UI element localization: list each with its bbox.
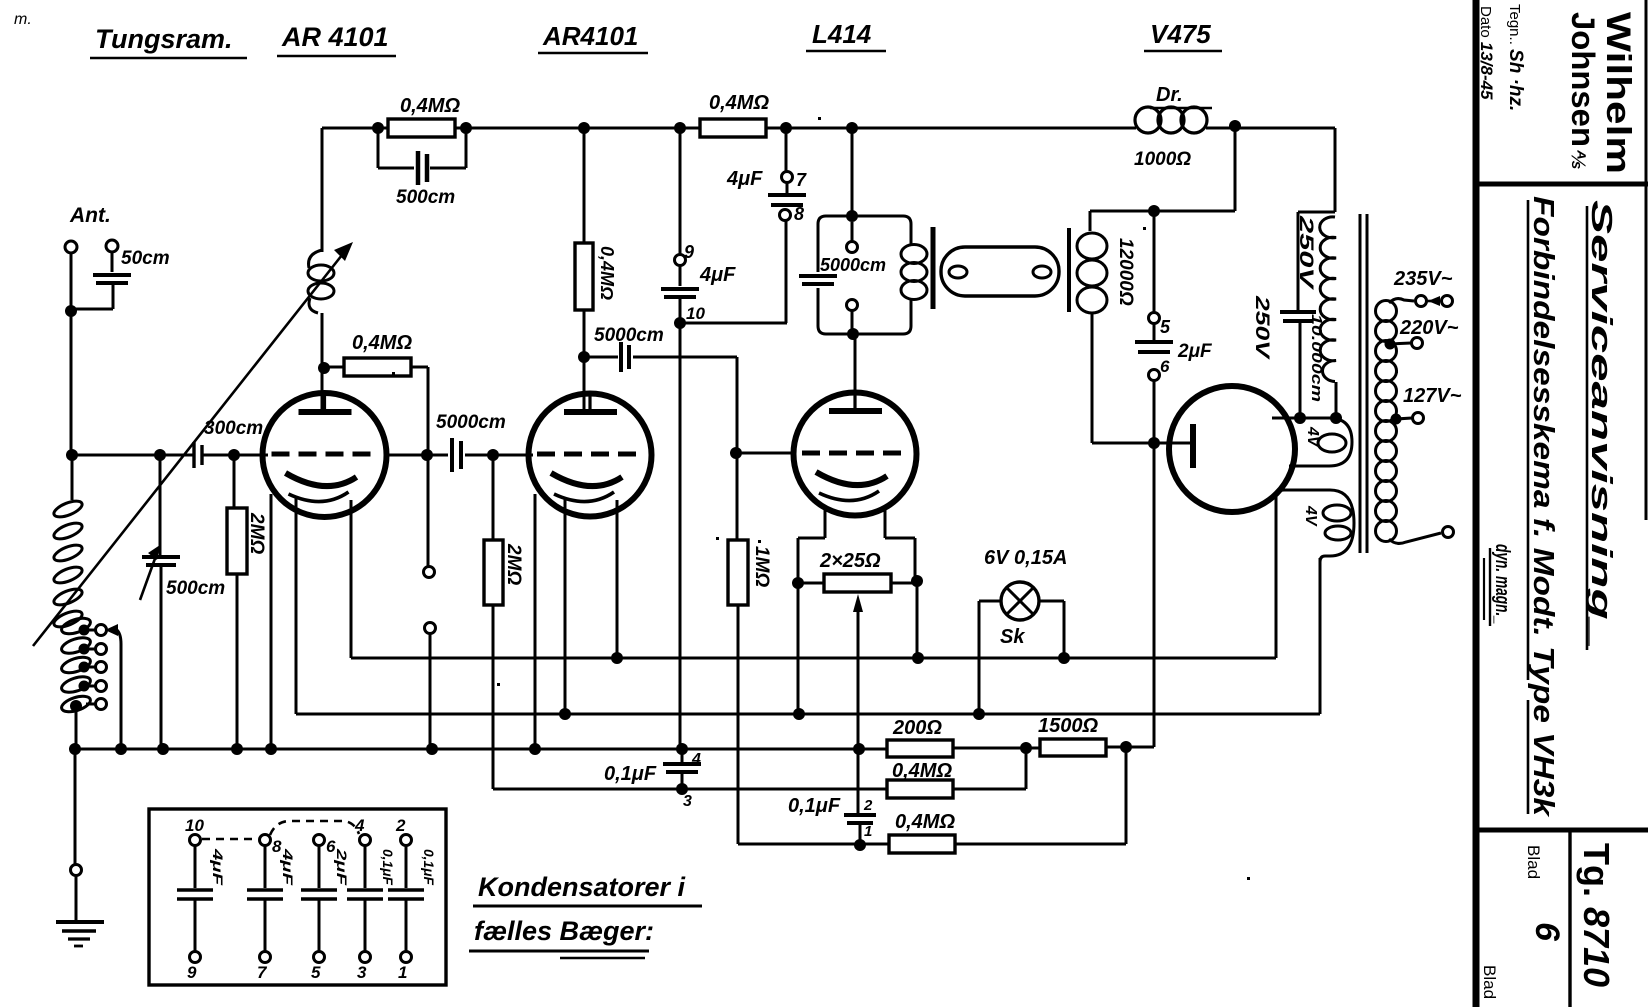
capacitor 4uF (9-10) xyxy=(679,266,682,286)
svg-text:127V~: 127V~ xyxy=(1403,385,1462,407)
svg-text:250V: 250V xyxy=(1295,214,1316,290)
node top bus junctions xyxy=(372,122,384,134)
svg-text:2: 2 xyxy=(395,816,406,835)
wire tube1 filament right leg xyxy=(350,500,353,658)
tube V3 L414 output triode xyxy=(794,393,917,516)
node heater line1 junctions xyxy=(611,652,623,664)
resistor 2x25 ohm filament hum pot xyxy=(798,582,824,585)
node after 1500 ohm xyxy=(1120,741,1132,753)
wire HT winding bottom to 4V line xyxy=(1335,382,1338,418)
wire y211 rail down to terminal 5 xyxy=(1153,211,1156,313)
wire tube3 filament left leg xyxy=(824,508,827,538)
resistor 0,4Mohm on y844 rail xyxy=(889,835,955,853)
sidebar bottom vertical divider xyxy=(1568,830,1571,1007)
svg-text:L414: L414 xyxy=(812,19,872,49)
wire tube1 cathode lead xyxy=(270,494,273,749)
wire lamp right lead to heater line1 xyxy=(1039,600,1064,603)
svg-text:Tegn.. Sh ·hz.: Tegn.. Sh ·hz. xyxy=(1505,4,1526,111)
svg-text:1: 1 xyxy=(864,823,872,840)
node 2Mohm branch xyxy=(228,449,240,461)
wire tube2 filament left leg xyxy=(564,498,567,714)
svg-text:3: 3 xyxy=(357,963,367,982)
wire antenna down xyxy=(70,253,73,311)
dashed link 10-8 xyxy=(202,838,258,841)
capacitor 2uF terminals 5-6 xyxy=(1153,324,1156,340)
resistor 0,4Mohm tube2 plate (vertical) xyxy=(575,243,593,310)
block capacitor 0,1&#956;F terminals 2-1 xyxy=(401,835,412,846)
capacitor 250V/10000cm reservoir xyxy=(1280,310,1316,314)
wire mains bottom lead xyxy=(1389,533,1441,543)
svg-text:5000cm: 5000cm xyxy=(436,412,506,433)
wire rectifier node into tube xyxy=(1154,442,1190,445)
svg-text:250V: 250V xyxy=(1251,295,1272,360)
wire tube3 plate lead xyxy=(854,334,857,412)
wire heater line2 xyxy=(296,713,1320,716)
svg-text:4V: 4V xyxy=(1304,426,1321,448)
svg-text:300cm: 300cm xyxy=(204,418,263,439)
svg-text:5000cm: 5000cm xyxy=(820,255,886,275)
wire tube2 grid leak down to y789 rail xyxy=(492,605,495,789)
node 500cm branch xyxy=(154,449,166,461)
svg-text:220V~: 220V~ xyxy=(1399,317,1459,339)
potentiometer wiper arrow xyxy=(853,594,863,612)
wire heater line1 xyxy=(351,657,1276,660)
rectifier electrode bar xyxy=(1190,424,1196,468)
tube V2 AR4101 triode xyxy=(529,394,652,517)
wire top bus corner down to transformer xyxy=(1334,128,1337,212)
svg-text:2: 2 xyxy=(863,797,873,814)
svg-text:Dr.: Dr. xyxy=(1156,84,1183,106)
svg-text:Blad: Blad xyxy=(1480,965,1499,999)
coil tap junction dots xyxy=(79,625,90,636)
wire y844 up to 1500 node xyxy=(1125,747,1128,844)
transformer 4V winding heaters xyxy=(1276,490,1354,562)
wire 2x25 left down to heater line2 xyxy=(797,583,800,714)
svg-text:12000Ω: 12000Ω xyxy=(1115,238,1136,306)
capacitor 50cm antenna xyxy=(111,252,114,272)
wire field coil top lead xyxy=(1089,211,1092,231)
terminal antenna left xyxy=(65,241,77,253)
node y211 rail to 2uF xyxy=(1148,205,1160,217)
capacitor 500cm parallel with top-left resistor xyxy=(377,128,380,168)
wire ground bus left end down xyxy=(74,749,77,864)
wire ground bus xyxy=(75,748,887,751)
svg-text:Sk: Sk xyxy=(1000,626,1025,648)
wire coupling down to tube3 grid xyxy=(736,357,739,453)
node 10 junction xyxy=(674,317,686,329)
terminal antenna right xyxy=(106,240,118,252)
svg-text:Dato 13/8-45: Dato 13/8-45 xyxy=(1477,6,1496,100)
svg-text:500cm: 500cm xyxy=(166,578,225,599)
svg-text:10: 10 xyxy=(686,304,705,323)
inductor antenna coil upper section xyxy=(71,455,74,500)
wire heater line2 up to 4V winding2 bottom xyxy=(1319,558,1322,714)
resistor 200 ohm in return bus xyxy=(887,740,953,757)
capacitor 0,1uF terminals 4-3 xyxy=(681,749,684,762)
wire 4V line xyxy=(1272,417,1336,420)
resistor 0,4Mohm top-left xyxy=(388,119,455,137)
svg-text:1500Ω: 1500Ω xyxy=(1038,715,1098,737)
wire tube3 filament right leg xyxy=(884,508,887,538)
wire lamp left lead to heater line2 xyxy=(979,600,1001,603)
wire choke node down to y211 rail xyxy=(1234,126,1237,211)
svg-text:Ant.: Ant. xyxy=(69,204,111,227)
wire mains top lead 235V xyxy=(1389,299,1414,303)
node coupling tube1-tube2 xyxy=(421,449,433,461)
tap selector arrow xyxy=(105,624,118,636)
svg-text:1000Ω: 1000Ω xyxy=(1134,149,1191,170)
ground symbol xyxy=(75,876,78,922)
wire to tube3 grid xyxy=(736,452,796,455)
wire tube1 grid to coupling node xyxy=(386,454,427,457)
choke Dr. 1000ohm on top bus xyxy=(1135,107,1161,133)
svg-text:V475: V475 xyxy=(1150,19,1211,49)
svg-text:4μF: 4μF xyxy=(726,168,763,190)
svg-text:0,4MΩ: 0,4MΩ xyxy=(709,92,769,114)
svg-text:4: 4 xyxy=(691,751,701,768)
capacitor 5000cm in output loop xyxy=(799,274,837,278)
wire left column to grid bus xyxy=(70,311,73,455)
node 2x25 right xyxy=(911,575,923,587)
output coupling loop with 5000cm capacitor and speaker primary xyxy=(818,216,852,272)
block capacitor 2&#956;F terminals 6-5 xyxy=(314,835,325,846)
wire cap bottom to 4V line xyxy=(1299,321,1302,418)
svg-text:2MΩ: 2MΩ xyxy=(246,512,267,554)
speaker transformer core xyxy=(931,227,936,309)
terminal 6 xyxy=(1149,370,1160,381)
svg-text:Johnsen: Johnsen xyxy=(1565,12,1601,147)
svg-text:6V 0,15A: 6V 0,15A xyxy=(984,547,1067,569)
svg-text:200Ω: 200Ω xyxy=(892,717,942,739)
svg-text:4μF: 4μF xyxy=(699,264,736,286)
svg-text:6: 6 xyxy=(1160,357,1170,376)
svg-text:Serviceanvisning_: Serviceanvisning_ xyxy=(1585,200,1617,648)
transformer HT winding 250V xyxy=(1320,217,1336,382)
node ground bus junctions xyxy=(69,743,81,755)
capacitor 300cm xyxy=(192,442,195,468)
terminal test point upper in loop xyxy=(851,222,854,242)
wire field coil bottom lead xyxy=(1091,314,1094,443)
wire grid bus xyxy=(72,454,193,457)
svg-text:7: 7 xyxy=(257,963,268,982)
node between 200 and 1500 xyxy=(1020,742,1032,754)
terminal 7 xyxy=(782,172,793,183)
tube V1 Tungsram AR4101 triode xyxy=(263,393,387,517)
capacitor 0,1uF terminals 2-1 xyxy=(844,813,876,817)
svg-text:0,4MΩ: 0,4MΩ xyxy=(895,811,955,833)
terminal 8 xyxy=(780,210,791,221)
paper edge right xyxy=(1645,0,1648,520)
node tube2 grid xyxy=(487,449,499,461)
jack terminals below coupling node xyxy=(427,455,430,567)
wire top bus down to output loop xyxy=(851,128,854,216)
resistor 0,4Mohm tube1 grid leak xyxy=(324,366,344,369)
wire node10 to jack8 column xyxy=(680,322,787,325)
resistor 2Mohm tube1 grid leak xyxy=(233,455,236,508)
terminal test point lower in loop xyxy=(851,311,854,330)
svg-text:2μF: 2μF xyxy=(1177,341,1213,362)
wire coil bottom to ground bus xyxy=(75,706,78,749)
resistor 1500 ohm in return bus xyxy=(1040,739,1106,756)
node rectifier input xyxy=(1148,437,1160,449)
svg-text:0,4MΩ: 0,4MΩ xyxy=(352,332,412,354)
svg-text:235V~: 235V~ xyxy=(1393,268,1453,290)
svg-text:Forbindelsesskema f. Modt. Typ: Forbindelsesskema f. Modt. Type VH3k xyxy=(1527,196,1559,818)
svg-text:5: 5 xyxy=(311,963,321,982)
lamp 6V 0,15A xyxy=(1001,582,1039,620)
svg-text:50cm: 50cm xyxy=(121,248,170,269)
wire tube2 cathode lead xyxy=(534,494,537,749)
resistor 1Mohm tube3 grid leak xyxy=(736,453,739,540)
coil tap terminals xyxy=(86,629,96,632)
tap 220V xyxy=(1385,339,1396,350)
capacitor 5000cm coupling to tube3 xyxy=(584,356,618,359)
field coil core xyxy=(1067,228,1071,312)
svg-text:500cm: 500cm xyxy=(396,187,455,208)
tube V4 rectifier V475 xyxy=(1169,386,1295,512)
svg-text:3: 3 xyxy=(683,793,692,810)
node grid bus left xyxy=(66,449,78,461)
block capacitor 4&#956;F terminals 10-9 xyxy=(190,835,201,846)
resistor 0,4Mohm on y789 rail xyxy=(887,780,953,798)
node tube3 grid xyxy=(730,447,742,459)
wire tube1 filament left leg xyxy=(295,498,298,714)
svg-text:0,4MΩ: 0,4MΩ xyxy=(400,95,460,117)
svg-text:5000cm: 5000cm xyxy=(594,325,664,346)
wire heater line1 up to 4V winding2 xyxy=(1275,497,1278,658)
transformer 4V winding rectifier filament xyxy=(1272,418,1352,466)
svg-text:8: 8 xyxy=(794,204,804,224)
svg-text:0,1μF: 0,1μF xyxy=(788,795,841,817)
svg-text:2×25Ω: 2×25Ω xyxy=(819,550,881,572)
svg-text:4V: 4V xyxy=(1302,505,1319,527)
svg-text:7: 7 xyxy=(796,170,807,190)
svg-text:0,4MΩ: 0,4MΩ xyxy=(597,246,617,300)
wire grid leak down to coupling node xyxy=(427,367,430,455)
svg-text:0,1μF: 0,1μF xyxy=(421,849,437,885)
wire y789 rail xyxy=(493,788,887,791)
wire 1Mohm down to y844 rail xyxy=(737,605,740,844)
node tube2 plate coupling xyxy=(578,351,590,363)
wire tube2 plate column xyxy=(583,128,586,243)
svg-text:6: 6 xyxy=(1528,922,1566,942)
capacitor 500cm variable tuning xyxy=(159,455,162,556)
svg-text:10: 10 xyxy=(185,816,204,835)
wire terminal8 down to node10 rail xyxy=(785,221,788,323)
svg-text:4μF: 4μF xyxy=(210,848,226,886)
wire 2x25 right down to heater line1 xyxy=(916,581,919,658)
node heater line2 junctions xyxy=(559,708,571,720)
capacitor 4uF (7-8) xyxy=(786,183,789,193)
sidebar main border xyxy=(1473,0,1480,1007)
inductor antenna coil tapped section xyxy=(60,615,93,637)
sidebar divider bottom box xyxy=(1473,828,1648,833)
node cap bottom xyxy=(1294,412,1306,424)
node antenna junction xyxy=(65,305,77,317)
svg-text:fælles Bæger:: fælles Bæger: xyxy=(474,916,654,946)
wire cap 250V top lead xyxy=(1298,211,1335,214)
node tube1 plate / grid leak junction xyxy=(318,362,330,374)
wire top bus left segment xyxy=(322,127,388,130)
node HT bottom xyxy=(1330,412,1342,424)
dashed link 8-4 xyxy=(270,821,359,835)
wire bus branch x787 down to 4uF 7-8 xyxy=(785,128,788,172)
svg-text:AR4101: AR4101 xyxy=(542,21,638,51)
field coil 12000 ohm winding xyxy=(1077,233,1107,259)
svg-text:5: 5 xyxy=(1160,317,1171,337)
block capacitor 4&#956;F terminals 8-7 xyxy=(260,835,271,846)
speaker transformer primary winding xyxy=(901,245,927,264)
svg-text:⅍: ⅍ xyxy=(1567,149,1588,169)
svg-text:6: 6 xyxy=(326,837,336,856)
electrolytic block outline xyxy=(149,809,446,985)
svg-text:4μF: 4μF xyxy=(280,848,296,886)
inductor coupling coil tube1 plate xyxy=(309,250,322,268)
sidebar divider top box xyxy=(1473,182,1648,187)
svg-text:2MΩ: 2MΩ xyxy=(503,543,524,585)
svg-text:Kondensatorer i: Kondensatorer i xyxy=(478,872,686,902)
node 2x25 left xyxy=(792,577,804,589)
svg-text:8: 8 xyxy=(272,837,282,856)
node tube3 plate xyxy=(847,328,859,340)
capacitor 5000cm coupling to tube2 xyxy=(427,454,448,457)
node coil bottom xyxy=(70,700,82,712)
wire rectifier node down to 1500 corner xyxy=(1153,443,1156,747)
ganged tuning diagonal arrow xyxy=(33,255,342,646)
transformer mains winding xyxy=(1376,301,1397,322)
svg-text:9: 9 xyxy=(684,242,694,262)
paper specks xyxy=(392,372,395,375)
wire tube1 plate column from bus xyxy=(321,128,324,252)
wire y844 rail xyxy=(738,843,889,846)
resistor 2Mohm tube2 grid leak xyxy=(492,455,495,540)
terminal above ground xyxy=(71,865,82,876)
svg-text:0,4MΩ: 0,4MΩ xyxy=(892,760,952,782)
svg-text:Wilhelm: Wilhelm xyxy=(1599,12,1637,174)
wire wiper down through ground bus to cap terminal 2 xyxy=(857,608,860,815)
svg-text:dyn. magn._: dyn. magn._ xyxy=(1491,544,1513,624)
block capacitor 0,1&#956;F terminals 4-3 xyxy=(360,835,371,846)
resistor 0,4Mohm top-middle xyxy=(700,119,766,137)
wire y789 up to 1500 node xyxy=(1025,748,1028,789)
svg-text:0,1μF: 0,1μF xyxy=(604,763,657,785)
svg-text:Tungsram.: Tungsram. xyxy=(95,24,233,54)
wire bus branch x680 down xyxy=(679,128,682,255)
node output loop top xyxy=(846,210,858,222)
svg-text:Tg. 8710: Tg. 8710 xyxy=(1576,843,1617,987)
transformer core xyxy=(1359,214,1362,553)
wire tube2 filament right leg xyxy=(616,500,619,658)
tap 127V xyxy=(1391,414,1402,425)
svg-text:Blad: Blad xyxy=(1524,845,1543,879)
svg-text:AR 4101: AR 4101 xyxy=(281,22,389,52)
svg-text:0,1μF: 0,1μF xyxy=(380,849,396,885)
svg-text:1MΩ: 1MΩ xyxy=(751,546,772,587)
loudspeaker capsule xyxy=(941,247,1059,296)
svg-text:m.: m. xyxy=(14,11,32,28)
svg-text:9: 9 xyxy=(187,963,197,982)
terminal 5 xyxy=(1149,313,1160,324)
terminal 9 xyxy=(675,255,686,266)
svg-text:2μF: 2μF xyxy=(334,848,350,886)
svg-text:1: 1 xyxy=(398,963,407,982)
